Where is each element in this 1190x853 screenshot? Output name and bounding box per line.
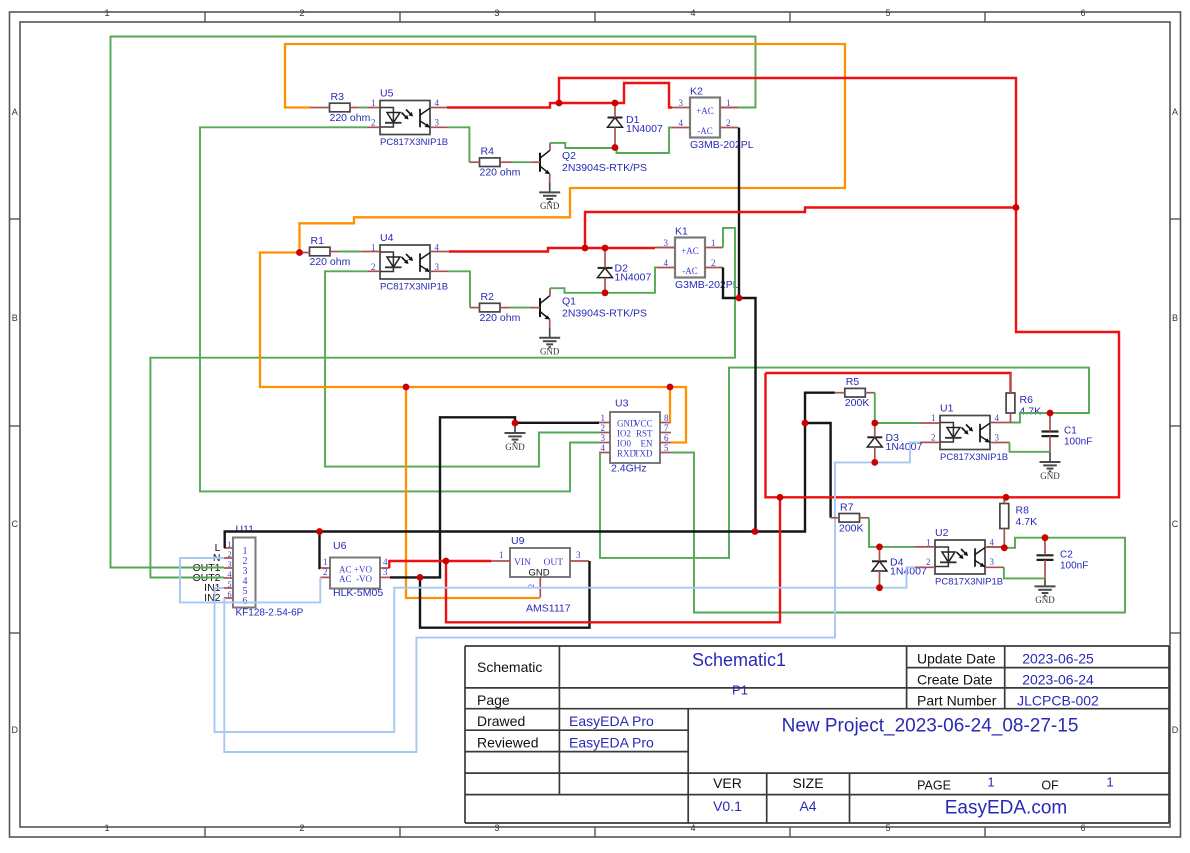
svg-text:4.7K: 4.7K <box>1020 406 1042 418</box>
svg-text:KF128-2.54-6P: KF128-2.54-6P <box>236 608 304 619</box>
svg-text:1: 1 <box>1106 775 1113 790</box>
svg-text:V0.1: V0.1 <box>713 798 742 814</box>
svg-text:OF: OF <box>1041 779 1059 793</box>
svg-text:1: 1 <box>987 775 994 790</box>
svg-text:2N3904S-RTK/PS: 2N3904S-RTK/PS <box>562 162 647 174</box>
svg-text:R8: R8 <box>1016 505 1030 517</box>
svg-text:Create Date: Create Date <box>917 672 993 688</box>
svg-text:1: 1 <box>228 540 232 549</box>
svg-text:U5: U5 <box>380 88 394 100</box>
svg-text:+VO: +VO <box>354 564 373 574</box>
svg-text:GND: GND <box>505 442 525 452</box>
svg-text:3: 3 <box>435 118 440 128</box>
svg-text:U4: U4 <box>380 232 394 244</box>
svg-text:-VO: -VO <box>356 574 372 584</box>
svg-text:100nF: 100nF <box>1060 560 1088 571</box>
svg-text:1: 1 <box>931 413 936 423</box>
svg-text:+AC: +AC <box>696 106 714 116</box>
svg-text:PC817X3NIP1B: PC817X3NIP1B <box>380 282 448 293</box>
svg-text:AC: AC <box>339 564 352 574</box>
svg-text:SIZE: SIZE <box>792 775 823 791</box>
svg-text:2: 2 <box>726 118 731 128</box>
svg-text:Q2: Q2 <box>562 150 576 162</box>
svg-text:1: 1 <box>711 238 716 248</box>
svg-text:G3MB-202PL: G3MB-202PL <box>690 139 754 151</box>
svg-text:R3: R3 <box>331 91 345 103</box>
svg-text:100nF: 100nF <box>1064 437 1092 448</box>
svg-text:1N4007: 1N4007 <box>626 123 663 135</box>
svg-text:200K: 200K <box>839 522 864 534</box>
svg-text:3: 3 <box>494 823 499 833</box>
svg-text:C1: C1 <box>1064 426 1077 437</box>
svg-text:R2: R2 <box>481 291 495 303</box>
svg-text:+AC: +AC <box>681 246 699 256</box>
svg-text:2023-06-24: 2023-06-24 <box>1022 672 1094 688</box>
svg-text:R7: R7 <box>840 501 854 513</box>
svg-text:G3MB-202PL: G3MB-202PL <box>675 279 739 291</box>
svg-text:3: 3 <box>995 433 1000 443</box>
svg-text:U3: U3 <box>615 398 629 410</box>
svg-text:GND: GND <box>540 201 560 211</box>
svg-text:RST: RST <box>636 429 653 439</box>
svg-text:4: 4 <box>995 413 1000 423</box>
svg-text:A: A <box>1172 107 1178 117</box>
svg-text:220 ohm: 220 ohm <box>330 112 371 124</box>
svg-text:3: 3 <box>679 98 684 108</box>
svg-text:1: 1 <box>926 538 931 548</box>
svg-text:JLCPCB-002: JLCPCB-002 <box>1017 693 1099 709</box>
svg-text:EN: EN <box>641 439 653 449</box>
svg-text:Update Date: Update Date <box>917 651 996 667</box>
svg-text:4: 4 <box>228 570 232 579</box>
svg-text:3: 3 <box>383 567 388 577</box>
svg-text:EasyEDA Pro: EasyEDA Pro <box>569 735 654 751</box>
svg-text:2: 2 <box>926 557 931 567</box>
svg-text:U11: U11 <box>236 524 255 536</box>
svg-text:4: 4 <box>690 823 695 833</box>
svg-text:AMS1117: AMS1117 <box>526 603 571 615</box>
svg-text:4: 4 <box>383 557 388 567</box>
svg-text:1N4007: 1N4007 <box>615 272 652 284</box>
svg-text:U1: U1 <box>940 403 954 415</box>
svg-text:3: 3 <box>494 8 499 18</box>
svg-text:1: 1 <box>726 98 731 108</box>
svg-text:U6: U6 <box>333 540 347 552</box>
svg-text:C2: C2 <box>1060 549 1073 560</box>
svg-text:4: 4 <box>664 258 669 268</box>
svg-text:4.7K: 4.7K <box>1016 516 1038 528</box>
svg-text:Q1: Q1 <box>562 296 576 308</box>
svg-text:P1: P1 <box>732 683 748 698</box>
svg-text:D: D <box>1172 725 1179 735</box>
svg-text:1: 1 <box>499 550 504 560</box>
svg-text:1: 1 <box>104 823 109 833</box>
svg-text:5: 5 <box>228 580 232 589</box>
svg-text:1: 1 <box>323 557 328 567</box>
svg-text:A: A <box>12 107 18 117</box>
svg-text:Part Number: Part Number <box>917 693 997 709</box>
svg-text:K2: K2 <box>690 86 703 98</box>
svg-text:GND: GND <box>540 347 560 357</box>
svg-text:R4: R4 <box>481 146 495 158</box>
svg-text:6: 6 <box>664 433 669 443</box>
svg-text:EasyEDA.com: EasyEDA.com <box>945 798 1067 819</box>
svg-text:EasyEDA Pro: EasyEDA Pro <box>569 713 654 729</box>
svg-text:220 ohm: 220 ohm <box>310 256 351 268</box>
svg-text:-AC: -AC <box>682 266 698 276</box>
svg-text:IO0: IO0 <box>617 439 631 449</box>
svg-text:3: 3 <box>228 560 232 569</box>
svg-text:2N3904S-RTK/PS: 2N3904S-RTK/PS <box>562 308 647 320</box>
svg-text:2: 2 <box>299 823 304 833</box>
svg-text:8: 8 <box>664 413 669 423</box>
svg-text:220 ohm: 220 ohm <box>480 312 521 324</box>
svg-text:A4: A4 <box>799 798 816 814</box>
svg-text:PAGE: PAGE <box>917 779 951 793</box>
svg-text:AC: AC <box>339 574 352 584</box>
svg-text:Drawed: Drawed <box>477 713 525 729</box>
svg-text:R6: R6 <box>1020 394 1034 406</box>
svg-text:3: 3 <box>990 557 995 567</box>
svg-text:7: 7 <box>664 423 669 433</box>
svg-text:K1: K1 <box>675 226 688 238</box>
svg-text:3: 3 <box>576 550 581 560</box>
svg-text:GND: GND <box>1040 471 1060 481</box>
svg-text:2: 2 <box>711 258 716 268</box>
svg-text:6: 6 <box>1080 8 1085 18</box>
svg-text:D: D <box>11 725 18 735</box>
svg-text:OUT: OUT <box>543 558 563 568</box>
svg-text:R5: R5 <box>846 376 860 388</box>
svg-text:4: 4 <box>435 98 440 108</box>
svg-text:HLK-5M05: HLK-5M05 <box>333 587 383 599</box>
svg-text:4: 4 <box>601 443 606 453</box>
svg-text:Schematic1: Schematic1 <box>692 650 786 670</box>
svg-text:5: 5 <box>885 823 890 833</box>
svg-text:New Project_2023-06-24_08-27-1: New Project_2023-06-24_08-27-15 <box>782 716 1079 737</box>
svg-text:VER: VER <box>713 775 742 791</box>
svg-text:5: 5 <box>885 8 890 18</box>
svg-text:GND: GND <box>1035 595 1055 605</box>
svg-text:PC817X3NIP1B: PC817X3NIP1B <box>380 137 448 148</box>
svg-text:Page: Page <box>477 692 510 708</box>
svg-text:GND: GND <box>528 568 549 579</box>
svg-text:4: 4 <box>990 538 995 548</box>
svg-text:1: 1 <box>104 8 109 18</box>
svg-text:2: 2 <box>299 8 304 18</box>
svg-text:4: 4 <box>690 8 695 18</box>
svg-text:2: 2 <box>601 423 606 433</box>
svg-text:U9: U9 <box>511 535 525 547</box>
svg-text:1: 1 <box>601 413 606 423</box>
svg-text:6: 6 <box>1080 823 1085 833</box>
svg-text:2: 2 <box>371 118 376 128</box>
svg-text:2: 2 <box>228 550 232 559</box>
svg-text:C: C <box>1172 519 1179 529</box>
svg-text:PC817X3NIP1B: PC817X3NIP1B <box>940 452 1008 463</box>
svg-text:VCC: VCC <box>634 419 653 429</box>
svg-text:B: B <box>12 313 18 323</box>
svg-text:R1: R1 <box>311 235 325 247</box>
svg-text:VIN: VIN <box>514 558 531 568</box>
svg-text:2: 2 <box>931 433 936 443</box>
svg-text:IO2: IO2 <box>617 429 631 439</box>
svg-text:U2: U2 <box>935 527 949 539</box>
svg-text:2: 2 <box>323 567 328 577</box>
svg-text:2023-06-25: 2023-06-25 <box>1022 651 1094 667</box>
svg-text:220 ohm: 220 ohm <box>480 167 521 179</box>
svg-text:Reviewed: Reviewed <box>477 735 538 751</box>
svg-text:C: C <box>11 519 18 529</box>
svg-text:3: 3 <box>601 433 606 443</box>
svg-text:B: B <box>1172 313 1178 323</box>
svg-text:Schematic: Schematic <box>477 659 542 675</box>
svg-text:2.4GHz: 2.4GHz <box>611 463 647 475</box>
svg-text:-AC: -AC <box>697 126 713 136</box>
svg-text:PC817X3NIP1B: PC817X3NIP1B <box>935 577 1003 588</box>
svg-text:200K: 200K <box>845 397 870 409</box>
svg-text:5: 5 <box>664 443 669 453</box>
svg-text:TXD: TXD <box>634 449 653 459</box>
svg-text:6: 6 <box>228 590 232 599</box>
svg-text:1: 1 <box>371 98 376 108</box>
svg-text:4: 4 <box>679 118 684 128</box>
svg-text:3: 3 <box>664 238 669 248</box>
